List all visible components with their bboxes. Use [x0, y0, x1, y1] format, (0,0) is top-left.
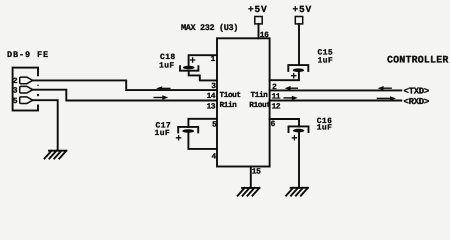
pin 3 contact (DB-9)	[20, 86, 33, 93]
capacitor C17 curved plate	[178, 127, 198, 132]
connector J1 DB-9 body	[13, 68, 38, 111]
pin 1 stub (U3)	[189, 55, 217, 65]
pin 15 label (U3)	[252, 168, 261, 177]
svg-text:1uF: 1uF	[317, 124, 333, 133]
arrow toward U3 on T1in wire near chip	[290, 87, 298, 89]
wire +5V to U3 pin16	[258, 24, 260, 38]
svg-text:+5V: +5V	[248, 4, 268, 15]
wire +5V to C15	[298, 24, 300, 65]
arrow toward U3 on R1in wire	[154, 97, 163, 99]
pin 1 label	[211, 55, 216, 64]
capacitor C16 plus mark	[292, 136, 296, 140]
connector J1 DB-9 label	[7, 50, 49, 60]
capacitor C15 positive plate	[293, 68, 304, 72]
pin 2 label (U3)	[272, 83, 277, 92]
pin 15 stub (U3)	[250, 167, 252, 188]
svg-text:6: 6	[271, 120, 276, 129]
arrow toward DB9 on T1out wire	[161, 87, 170, 89]
ground (C16)	[286, 188, 308, 196]
capacitor C15 value 1uF	[318, 56, 334, 65]
svg-text:16: 16	[260, 31, 269, 40]
ground (DB-9 shield)	[45, 151, 67, 159]
pin 5 contact (DB-9)	[20, 97, 33, 104]
wire DB9 pin5 to ground	[33, 100, 58, 151]
svg-text:+5V: +5V	[293, 4, 313, 15]
capacitor C17 value 1uF	[155, 129, 171, 138]
capacitor C18 plus mark	[191, 58, 195, 62]
capacitor C17 plus mark	[177, 136, 181, 140]
pin 5 label (DB-9)	[13, 97, 18, 106]
svg-text:3: 3	[13, 86, 18, 95]
svg-text:3: 3	[211, 82, 216, 91]
capacitor C18 label	[160, 53, 176, 62]
svg-text:MAX 232 (U3): MAX 232 (U3)	[181, 23, 238, 33]
capacitor C15 plus mark	[292, 74, 296, 78]
pin 13 label (U3)	[207, 103, 216, 112]
node RXD label	[404, 97, 430, 107]
pin 3 label (DB-9)	[13, 86, 18, 95]
svg-text:T1in: T1in	[251, 91, 269, 100]
wire C15 to U3 pin2	[270, 72, 299, 80]
pin 2 label (DB-9)	[13, 77, 18, 86]
power +5V right	[293, 4, 313, 15]
connector J1 edge gaps at wire feedthroughs	[37, 78, 40, 104]
capacitor C15 label	[318, 49, 334, 58]
wire U3 pin11 T1in to TXD	[270, 89, 402, 91]
capacitor C16 value 1uF	[317, 124, 333, 133]
label U3 part name	[181, 23, 238, 33]
pin name R1out (inside U3)	[249, 101, 270, 110]
capacitor C16 curved plate	[289, 126, 309, 132]
svg-text:R1out: R1out	[249, 101, 270, 110]
pin 2 contact (DB-9)	[20, 77, 33, 84]
svg-text:1uF: 1uF	[318, 56, 334, 65]
svg-text:4: 4	[212, 152, 217, 161]
capacitor C18 curved plate	[180, 66, 198, 71]
svg-text:CONTROLLER: CONTROLLER	[387, 56, 449, 67]
capacitor C18 value 1uF	[159, 61, 175, 70]
pin 5 stub (U3)	[188, 119, 216, 127]
svg-text:DB-9 FE: DB-9 FE	[7, 50, 49, 60]
wire DB9 pin3 to U3 pin13	[33, 90, 217, 101]
pin 4 label (U3)	[212, 152, 217, 161]
svg-text:1: 1	[211, 55, 216, 64]
label CONTROLLER	[387, 56, 449, 67]
capacitor C16 positive plate	[293, 129, 304, 133]
node TXD label	[404, 86, 430, 96]
svg-text:5: 5	[212, 121, 217, 130]
wire C17 to U3 pin4	[188, 133, 216, 149]
wire C18 to U3 pin3	[189, 71, 217, 81]
pin name T1out (inside U3)	[220, 91, 241, 100]
wire DB9 pin2 to U3 pin14	[33, 80, 217, 90]
pin 6 label (U3)	[271, 120, 276, 129]
capacitor C17 positive plate	[182, 129, 194, 133]
svg-text:<RXD>: <RXD>	[404, 97, 430, 107]
pin 12 label (U3)	[272, 102, 281, 111]
ground (U3 pin15)	[238, 188, 260, 196]
capacitor C17 label	[156, 122, 172, 131]
svg-text:1uF: 1uF	[159, 61, 175, 70]
capacitor C16 label	[317, 117, 333, 126]
pin 5 label (U3)	[212, 121, 217, 130]
pin 6 stub (U3)	[270, 119, 299, 126]
capacitor C15 curved plate	[288, 65, 308, 71]
svg-text:12: 12	[272, 102, 281, 111]
pin 16 label (U3)	[260, 31, 269, 40]
arrow toward controller on R1out wire near chip	[284, 97, 292, 99]
svg-text:14: 14	[207, 92, 216, 101]
svg-text:2: 2	[13, 77, 18, 86]
pin 11 label (U3)	[272, 92, 281, 101]
capacitor C18 positive plate	[183, 66, 195, 70]
svg-text:<TXD>: <TXD>	[404, 86, 430, 96]
wire C16 to ground	[298, 132, 300, 187]
svg-text:T1out: T1out	[220, 91, 241, 100]
svg-text:1uF: 1uF	[155, 129, 171, 138]
svg-text:13: 13	[207, 103, 216, 112]
pin name T1in (inside U3)	[251, 91, 269, 100]
arrow toward U3 on T1in wire near controller	[383, 87, 392, 89]
arrow toward controller on R1out wire near controller	[377, 97, 390, 99]
pin 3 label (U3)	[211, 82, 216, 91]
power +5V left	[248, 4, 268, 15]
svg-text:15: 15	[252, 168, 261, 177]
svg-text:R1in: R1in	[220, 101, 238, 110]
svg-text:5: 5	[13, 97, 18, 106]
op-amp U1 : IC U3 MAX232 body	[217, 38, 270, 166]
wire U3 pin12 R1out to RXD	[270, 100, 402, 102]
pin 14 label (U3)	[207, 92, 216, 101]
pin name R1in (inside U3)	[220, 101, 238, 110]
